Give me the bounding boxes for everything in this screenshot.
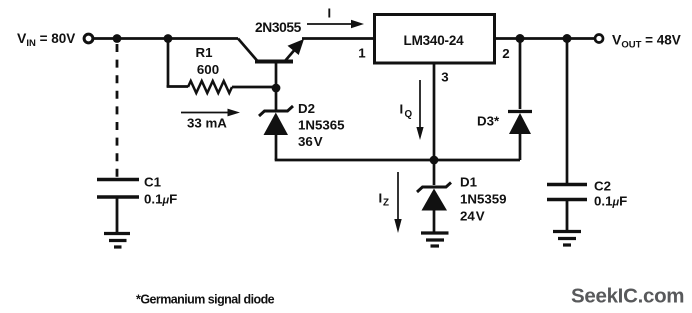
current arrow 33 mA (181, 109, 240, 117)
svg-text:Q: Q (405, 109, 413, 120)
wire emitter to regulator pin 1 (302, 37, 374, 40)
C2 value label 0.1uF (594, 194, 627, 209)
wire R1 column drop (167, 39, 170, 88)
IZ label (379, 191, 390, 209)
wire top rail from input terminal (94, 37, 239, 40)
junction base node (272, 84, 281, 93)
junction R1 tap (164, 34, 173, 43)
svg-text:*Germanium signal diode: *Germanium signal diode (136, 293, 275, 307)
current arrow IZ (394, 172, 401, 233)
svg-text:600: 600 (197, 62, 219, 77)
transistor Q1 2N3055 (238, 39, 304, 89)
capacitor C1 (97, 180, 139, 234)
ground under C2 (553, 232, 581, 246)
regulator U1 LM340-24 (375, 15, 495, 64)
D2 value label 36V (298, 134, 323, 149)
svg-text:1N5359: 1N5359 (460, 192, 507, 207)
I label (328, 6, 332, 21)
diode D1 zener (417, 160, 451, 232)
C2 reference label (594, 179, 611, 194)
footnote germanium signal diode (136, 293, 275, 307)
R1 reference label (196, 45, 214, 60)
svg-text:1N5365: 1N5365 (298, 118, 345, 133)
svg-text:D3*: D3* (477, 114, 500, 129)
svg-text:33 mA: 33 mA (187, 116, 227, 131)
junction C2 tap (563, 34, 572, 43)
node VOUT label (612, 32, 681, 51)
wire regulator pin 2 to output (494, 37, 595, 40)
svg-text:SeekIC.com: SeekIC.com (571, 285, 684, 308)
wire bottom bus (275, 159, 520, 162)
svg-text:D2: D2 (298, 101, 315, 116)
33 mA label (187, 116, 227, 131)
svg-text:3: 3 (441, 70, 448, 85)
svg-text:24V: 24V (460, 209, 485, 224)
svg-text:2: 2 (502, 46, 509, 61)
wire dashed drop to C1 (116, 44, 119, 177)
wire R1 left lead (167, 85, 188, 88)
pin 2 label (502, 46, 509, 61)
svg-text:I: I (328, 6, 332, 21)
resistor R1 (188, 81, 232, 93)
pin 1 label (358, 46, 366, 61)
watermark SeekIC.com (571, 285, 684, 308)
R1 value label 600 (197, 62, 219, 77)
svg-text:I: I (379, 191, 383, 206)
svg-text:I: I (400, 102, 404, 117)
input terminal VIN (84, 34, 93, 43)
svg-text:0.1μF: 0.1μF (594, 194, 627, 209)
D1 part label 1N5359 (460, 192, 507, 207)
svg-text:0.1μF: 0.1μF (144, 192, 177, 207)
svg-text:LM340-24: LM340-24 (404, 33, 465, 48)
D1 value label 24V (460, 209, 485, 224)
current arrow I (307, 20, 364, 28)
svg-text:C2: C2 (594, 179, 611, 194)
svg-text:C1: C1 (144, 175, 162, 190)
svg-text:2N3055: 2N3055 (255, 20, 302, 35)
diode D2 zener (259, 88, 293, 160)
pin 3 label (441, 70, 448, 85)
diode D3 (508, 39, 532, 161)
current arrow IQ (416, 80, 423, 140)
wire regulator pin 3 drop (433, 63, 436, 160)
junction C1 tap (113, 34, 122, 43)
D2 part label 1N5365 (298, 118, 345, 133)
output terminal VOUT (595, 35, 603, 43)
D2 reference label (298, 101, 315, 116)
D3 reference label (477, 114, 500, 129)
C1 reference label (144, 175, 162, 190)
svg-text:36V: 36V (298, 134, 323, 149)
D1 reference label (460, 175, 478, 190)
svg-text:1: 1 (358, 46, 366, 61)
wire R1 right lead to base node (232, 86, 276, 89)
ground under D1 (421, 233, 449, 246)
IQ label (400, 102, 413, 121)
svg-text:D1: D1 (460, 175, 478, 190)
2N3055 label (255, 20, 302, 35)
node VIN label (17, 30, 75, 49)
capacitor C2 (547, 39, 587, 232)
svg-text:Z: Z (383, 198, 389, 209)
LM340-24 label (404, 33, 465, 48)
svg-text:R1: R1 (196, 45, 214, 60)
junction D3 tap (516, 34, 525, 43)
junction D1 tap (430, 156, 439, 165)
C1 value label 0.1uF (144, 192, 177, 207)
ground under C1 (104, 234, 130, 248)
